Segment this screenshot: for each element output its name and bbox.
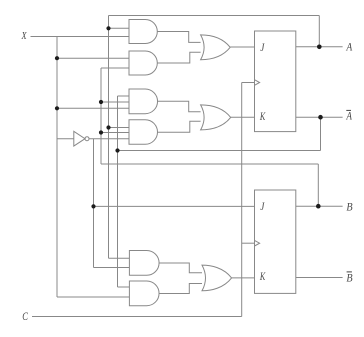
wire OR2 output to FF1 K [231,116,255,118]
svg-text:X: X [21,31,28,42]
node Xbar vertical bus [93,139,95,268]
wire FF2 B output [296,205,343,207]
junction dot B to AND4 [99,130,103,134]
wire A feedback top horizontal [109,15,320,17]
junction dot Xbar to FF2 J [91,204,95,208]
flip-flop FF1 clock chevron [255,80,260,86]
wire X input horizontal [31,36,130,38]
wire OR1 output to FF1 J [230,46,254,48]
junction dot X to AND2 [55,56,59,60]
svg-text:B: B [346,201,352,214]
flip-flop FF2 clock chevron [255,240,260,246]
node Abar vertical bus [117,96,119,287]
wire B to AND3 middle input [101,101,129,103]
svg-text:A: A [346,41,353,54]
wire clock to FF2 [242,242,255,244]
or-gate OR2 [201,105,231,130]
wire B to AND4 middle input [101,132,129,134]
junction dot Abar output [318,115,323,120]
wire B feedback riser to B output [317,164,319,206]
svg-text:B: B [346,272,352,285]
wire Abar feedback horizontal [118,150,321,152]
wire A to AND4 top input [109,127,130,129]
junction dot Abar feedback [115,148,119,152]
wire Abar feedback riser to Abar output [320,117,322,150]
and-gate AND1 [129,20,157,44]
or-gate OR3 [202,265,232,291]
wire X to AND6 bottom input [57,296,129,298]
label Abar overbar [346,109,351,111]
node B feedback vertical bus [100,68,102,164]
and-gate AND2 [129,51,157,75]
wire Xbar to FF2 J input [94,205,255,207]
junction dot A output [317,45,322,50]
wire C clock input horizontal [32,316,242,318]
wire X to AND2 top input [57,57,129,59]
wire FF2 Bbar output [296,277,343,279]
junction dot X to AND3 [55,106,59,110]
wire Abar to AND6 top input [118,286,130,288]
and-gate AND4 [129,120,158,145]
and-gate AND6 [129,281,159,306]
wire OR3 output to FF2 K [232,277,255,279]
wire NOT output to AND4 bottom input [89,138,129,140]
wire AND6 output to OR3 bottom input [159,284,202,294]
wire A to AND1 top input [109,27,130,29]
and-gate AND5 [129,251,159,276]
flip-flop FF1 body [255,31,296,132]
flip-flop FF2 body [255,190,296,293]
wire FF1 Abar output [296,116,343,118]
wire AND5 output to OR3 top input [159,263,202,273]
wire A to AND5 top input [109,257,130,259]
or-gate OR1 [201,35,231,60]
svg-text:A: A [346,110,353,122]
junction dot A to AND1 [106,26,110,30]
svg-text:C: C [22,311,28,324]
not-gate inverter triangle [74,131,85,146]
wire clock to FF1 [242,82,255,84]
node clock vertical bus [241,83,243,317]
wire X to AND3 bottom input [57,107,129,109]
wire B to AND2 bottom input [101,67,129,69]
and-gate AND3 [129,89,158,114]
wire X to NOT input [57,138,74,140]
label Bbar overbar [347,271,352,273]
junction dot B output [316,204,321,209]
node X branch vertical bus [56,37,58,298]
wire AND3 output to OR2 top input [158,101,201,112]
wire B feedback horizontal [101,163,318,165]
wire A feedback riser to A output [318,16,320,47]
wire Abar to AND3 top input [118,95,130,97]
wire AND2 output to OR1 bottom input [157,52,200,63]
junction dot A to AND4 [106,125,110,129]
wire AND4 output to OR2 bottom input [158,121,201,132]
wire AND1 output to OR1 top input [157,32,200,43]
wire Xbar to AND5 bottom input [94,267,130,269]
node A feedback vertical bus [108,16,110,259]
not-gate bubble [85,137,89,141]
junction dot B to AND3 [99,100,103,104]
wire FF1 A output [296,46,343,48]
